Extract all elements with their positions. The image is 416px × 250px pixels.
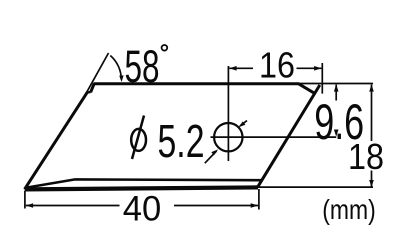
40 left arrowhead: [26, 203, 33, 208]
40 right extension line: [258, 189, 260, 210]
top-right extension line: [299, 83, 373, 85]
16 dimension line left segment: [229, 67, 253, 69]
16 left arrowhead: [229, 66, 236, 71]
phi symbol slash: [132, 116, 144, 160]
bottom-right extension line: [258, 186, 373, 188]
hole SW leader arrow: [205, 151, 217, 163]
40 left extension line: [24, 191, 26, 209]
blade left edge: [25, 92, 88, 189]
16 dimension line right segment: [297, 67, 322, 69]
blade bottom edge: [25, 187, 258, 189]
58-degree extension line: [86, 53, 109, 94]
9.6 upper arrowhead: [334, 84, 339, 91]
40 right arrowhead: [251, 203, 258, 208]
phi symbol ellipse: [131, 129, 146, 151]
hole circle: [214, 123, 242, 151]
blade right edge: [258, 85, 320, 187]
18 upper arrowhead: [369, 84, 374, 91]
58-degree angle arc: [110, 56, 121, 80]
40 dimension line left segment: [26, 205, 120, 207]
16 right arrowhead: [314, 66, 321, 71]
svg-text:16: 16: [259, 44, 295, 85]
40 dimension line right segment: [174, 205, 258, 207]
blade left edge upper segment: [91, 84, 95, 93]
9.6 lower arrowhead: [334, 130, 339, 137]
18 lower arrowhead: [369, 180, 374, 187]
blade bevel line: [27, 179, 262, 187]
blade tip chamfer edge: [298, 84, 315, 94]
18 dimension line lower segment: [371, 171, 373, 187]
degree symbol: [162, 45, 168, 51]
svg-text:58: 58: [125, 41, 160, 92]
18 dimension line upper segment: [371, 85, 373, 141]
svg-text:(mm): (mm): [322, 194, 376, 225]
16 right extension line: [321, 63, 323, 94]
9.6 dimension line upper segment: [335, 85, 337, 101]
svg-text:5.2: 5.2: [158, 115, 205, 167]
svg-text:40: 40: [123, 189, 162, 228]
blade top edge: [94, 82, 300, 85]
blade notch jog: [87, 91, 90, 94]
hole vertical centerline / 16 left extension line: [227, 66, 229, 161]
hole NE leader arrow: [240, 121, 247, 126]
hole horizontal centerline: [211, 136, 337, 138]
svg-text:18: 18: [348, 136, 384, 177]
58-degree arc arrowhead: [119, 75, 123, 82]
